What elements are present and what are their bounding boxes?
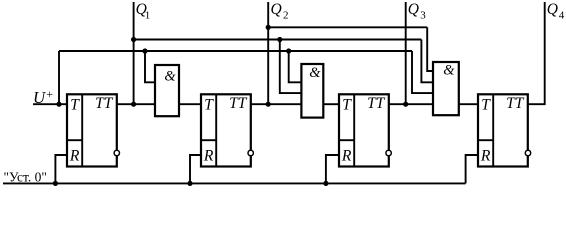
junction Q3 line / DD3 output xyxy=(403,102,408,107)
wire Q2 bus drop to AND3 input xyxy=(427,27,433,71)
junction Q2 line / Q2 bus xyxy=(266,25,271,30)
svg-text:TT: TT xyxy=(229,95,248,112)
flip-flop DD4 T/R field separator xyxy=(478,139,493,141)
svg-text:R: R xyxy=(341,147,352,164)
wire U+ bus drop to AND3 input xyxy=(412,51,433,93)
svg-text:&: & xyxy=(164,69,176,85)
flip-flop DD3 control field divider xyxy=(353,94,355,166)
and-gate AND1 body xyxy=(155,65,179,116)
flip-flop DD4 control field divider xyxy=(492,94,494,166)
junction U+ to riser xyxy=(56,102,61,107)
inverted output bubble DD2 xyxy=(248,150,253,155)
junction reset line / DD1 R drop xyxy=(53,181,58,186)
svg-text:T: T xyxy=(481,97,491,114)
svg-text:TT: TT xyxy=(506,95,525,112)
inverted output bubble DD4 xyxy=(525,150,530,155)
svg-text:R: R xyxy=(69,147,80,164)
wire DD1 output to AND1 xyxy=(117,103,155,105)
flip-flop DD1 body xyxy=(67,94,117,166)
flip-flop DD2 T/R field separator xyxy=(201,139,216,141)
wire Q1 bus drop to AND2 input xyxy=(280,40,302,94)
flip-flop DD3 T/R field separator xyxy=(339,139,354,141)
junction reset line / DD3 R drop xyxy=(323,181,328,186)
svg-text:R: R xyxy=(203,147,214,164)
wire reset to R of DD4 xyxy=(466,155,478,183)
wire Q2 feedback bus xyxy=(268,26,427,28)
junction Q1 bus / AND2 drop xyxy=(277,37,282,42)
svg-text:T: T xyxy=(204,97,214,114)
junction Q2 line / DD2 output xyxy=(266,102,271,107)
wire U+ bus xyxy=(59,50,412,52)
wire reset line "Уст.0" xyxy=(3,182,466,184)
flip-flop DD1 control field divider xyxy=(81,94,83,166)
node Q3 output terminal line xyxy=(405,2,407,104)
wire Q1 feedback bus xyxy=(134,39,422,41)
svg-text:TT: TT xyxy=(95,95,114,112)
flip-flop DD2 body xyxy=(201,94,251,166)
junction reset line / DD2 R drop xyxy=(187,181,192,186)
svg-text:&: & xyxy=(443,62,455,78)
wire reset to R of DD1 xyxy=(55,155,67,183)
svg-text:Q: Q xyxy=(547,1,558,18)
svg-text:Q: Q xyxy=(408,1,419,18)
wire DD2 output to AND2 xyxy=(251,103,302,105)
wire U+ input to T of DD1 xyxy=(33,103,67,105)
svg-text:T: T xyxy=(342,97,352,114)
wire AND3 output to DD4 T input xyxy=(459,103,478,105)
wire AND1 output to DD2 T input xyxy=(179,103,201,105)
junction Q1 line / DD1 output xyxy=(131,102,136,107)
svg-text:1: 1 xyxy=(145,10,151,22)
flip-flop DD3 body xyxy=(339,94,389,166)
svg-text:4: 4 xyxy=(559,10,565,22)
and-gate AND2 body xyxy=(301,64,323,118)
node Q1 output terminal line xyxy=(133,2,135,104)
svg-text:TT: TT xyxy=(367,95,386,112)
node Q4 output terminal line xyxy=(528,2,545,104)
wire U+ bus drop to AND2 input xyxy=(289,51,302,82)
wire U+ bus drop to AND1 input xyxy=(145,51,155,82)
node Q2 output terminal line xyxy=(267,2,269,104)
svg-text:+: + xyxy=(46,87,54,101)
flip-flop DD1 T/R field separator xyxy=(67,139,82,141)
and-gate AND3 body xyxy=(433,62,459,115)
flip-flop DD2 control field divider xyxy=(215,94,217,166)
junction U+ bus / AND2 drop xyxy=(286,48,291,53)
wire U+ riser xyxy=(58,51,60,104)
svg-text:R: R xyxy=(480,147,491,164)
svg-text:2: 2 xyxy=(283,10,289,22)
inverted output bubble DD3 xyxy=(386,150,391,155)
junction Q1 line / Q1 bus xyxy=(131,37,136,42)
svg-text:&: & xyxy=(309,65,321,81)
junction U+ bus / AND1 drop xyxy=(142,48,147,53)
wire reset to R of DD3 xyxy=(326,155,339,183)
flip-flop DD4 body xyxy=(478,94,528,166)
svg-text:3: 3 xyxy=(420,10,426,22)
wire reset to R of DD2 xyxy=(190,155,201,183)
svg-text:Q: Q xyxy=(271,1,282,18)
svg-text:"Уст. 0": "Уст. 0" xyxy=(4,170,47,185)
wire AND2 output to DD3 T input xyxy=(323,103,339,105)
svg-text:T: T xyxy=(70,97,80,114)
inverted output bubble DD1 xyxy=(114,150,119,155)
wire Q1 bus drop to AND3 input xyxy=(421,40,433,83)
wire DD3 output to AND3 xyxy=(389,103,433,105)
